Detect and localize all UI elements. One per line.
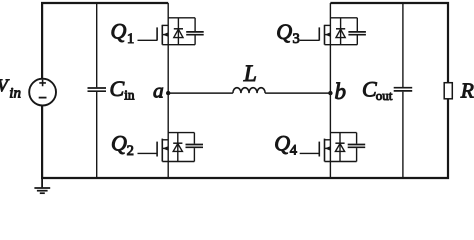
svg-text:4: 4 — [290, 143, 298, 159]
svg-text:out: out — [376, 88, 393, 103]
wire: node a to inductor — [168, 92, 233, 94]
wire: bottom ground rail with left rail lower part and R lower lead — [42, 99, 448, 178]
resistor R (load) — [444, 83, 452, 99]
wire: top rail input segment (Vin+ to Q1 drain leg) with left rail upper part — [42, 3, 168, 79]
svg-text:Q: Q — [111, 19, 127, 44]
svg-text:Q: Q — [111, 130, 127, 155]
wire: top rail output segment (Q3 drain leg to R upper lead) — [330, 3, 448, 83]
svg-text:2: 2 — [127, 143, 134, 159]
transistor Q1 (MOSFET) — [157, 18, 195, 45]
label Cout — [362, 76, 393, 103]
label L — [243, 61, 257, 87]
capacitor Cin — [88, 3, 107, 178]
wire: gate lead Q4 — [300, 152, 320, 154]
body diode of Q4 — [335, 133, 344, 162]
transistor Q3 (MOSFET) — [319, 18, 357, 45]
svg-text:Q: Q — [276, 19, 292, 44]
svg-text:Q: Q — [274, 130, 290, 155]
svg-text:b: b — [335, 79, 347, 104]
svg-text:3: 3 — [293, 31, 300, 47]
label Q4 — [274, 130, 298, 158]
parasitic capacitor of Q1 — [186, 18, 204, 45]
inductor L — [233, 88, 265, 93]
parasitic capacitor of Q4 — [348, 133, 366, 162]
svg-text:a: a — [153, 78, 164, 102]
svg-text:C: C — [110, 76, 125, 101]
node a — [166, 91, 170, 95]
svg-text:C: C — [362, 76, 377, 101]
svg-text:in: in — [9, 85, 21, 101]
body diode of Q3 — [336, 18, 345, 45]
parasitic capacitor of Q3 — [348, 18, 366, 45]
svg-text:in: in — [124, 87, 135, 102]
parasitic capacitor of Q2 — [186, 133, 204, 162]
wire: gate lead Q2 — [138, 152, 158, 154]
label Cin — [110, 76, 135, 103]
wire: inductor to node b — [265, 92, 330, 94]
svg-text:1: 1 — [127, 31, 134, 47]
label Q2 — [111, 130, 134, 159]
label a — [153, 78, 164, 102]
wire: gate lead Q3 — [300, 39, 320, 41]
body diode of Q1 — [174, 18, 183, 45]
label Vin — [0, 75, 21, 101]
transistor Q4 (MOSFET) — [319, 133, 356, 162]
label b — [335, 79, 347, 104]
wire: right half-bridge leg — [329, 3, 331, 178]
body diode of Q2 — [173, 133, 182, 162]
node b — [328, 91, 332, 95]
label Q1 — [111, 19, 135, 47]
svg-text:L: L — [243, 61, 257, 87]
wire: gate lead Q1 — [138, 39, 158, 41]
svg-text:R: R — [460, 79, 474, 103]
capacitor Cout — [394, 3, 413, 178]
wire: left half-bridge leg — [167, 3, 169, 178]
voltage source Vin — [29, 79, 56, 106]
transistor Q2 (MOSFET) — [157, 133, 194, 162]
label Q3 — [276, 19, 300, 47]
ground — [34, 178, 50, 193]
label R — [460, 79, 474, 103]
